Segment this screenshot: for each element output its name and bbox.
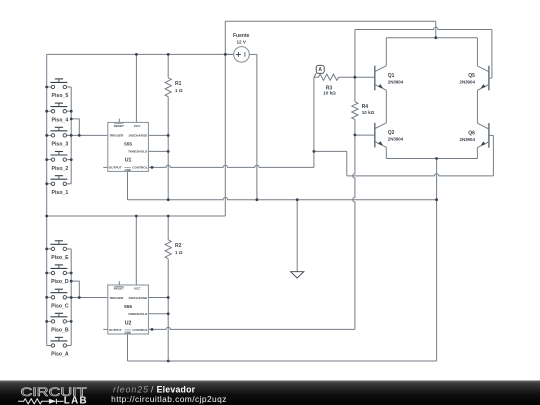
pushbutton switch Piso_C [47, 289, 71, 299]
svg-text:Piso_E: Piso_E [51, 255, 69, 261]
label Piso_A [51, 352, 69, 358]
svg-text:DISCHARGE: DISCHARGE [129, 134, 149, 138]
wire R4 upper lead [354, 77, 356, 102]
wire R3 left lead [314, 76, 319, 78]
svg-text:Piso_3: Piso_3 [52, 142, 69, 148]
label Piso_4 [52, 117, 69, 123]
wire C U2 ground rail [128, 334, 437, 361]
wire U2 VCC [135, 216, 137, 285]
svg-text:VCC: VCC [134, 124, 141, 128]
svg-text:OUTPUT: OUTPUT [109, 166, 123, 170]
svg-text:2N3904: 2N3904 [388, 137, 404, 142]
wire Q6 emitter [476, 148, 478, 159]
pushbutton switch Piso_1 [47, 176, 71, 186]
svg-text:LAB: LAB [64, 396, 87, 405]
pushbutton switch Piso_B [47, 313, 71, 323]
svg-text:1 Ω: 1 Ω [175, 250, 183, 255]
svg-text:Piso_B: Piso_B [51, 328, 69, 334]
wire R3 right lead [339, 76, 375, 78]
svg-text:U1: U1 [125, 158, 132, 164]
svg-text:Q5: Q5 [468, 73, 475, 79]
label R2 value [175, 243, 183, 255]
ground symbol [291, 272, 304, 278]
svg-text:1 Ω: 1 Ω [175, 88, 183, 93]
label Fuente [233, 33, 250, 44]
label Piso_5 [52, 93, 69, 99]
svg-text:Piso_C: Piso_C [51, 304, 69, 310]
svg-text:CONTROL: CONTROL [132, 328, 147, 332]
svg-text:Piso_1: Piso_1 [52, 190, 69, 196]
svg-text:A: A [318, 67, 322, 73]
wire Q5 collector [476, 38, 478, 66]
wire node A vertical [313, 77, 315, 151]
svg-text:2N3904: 2N3904 [460, 80, 476, 85]
wire U2 discharge [148, 297, 168, 299]
wire node A to Q6 base [314, 135, 494, 176]
label Q2 [388, 130, 404, 141]
wire Q2 emitter [385, 147, 387, 158]
svg-text:R1: R1 [175, 81, 182, 87]
wire U1 threshold [148, 150, 168, 152]
transistor Q5 [477, 66, 489, 91]
label Piso_D [51, 279, 69, 285]
label Q1 [388, 73, 404, 84]
wire U2 threshold [148, 313, 168, 315]
pushbutton switch Piso_3 [47, 127, 71, 137]
svg-text:2N3904: 2N3904 [460, 137, 476, 142]
pushbutton switch Piso_A [47, 337, 71, 347]
svg-text:R2: R2 [175, 243, 182, 249]
pushbutton switch Piso_5 [47, 79, 71, 89]
logo CIRCUIT LAB [18, 385, 87, 405]
svg-text:Piso_D: Piso_D [51, 279, 69, 285]
svg-text:Q1: Q1 [388, 73, 395, 79]
resistor R3 [319, 74, 339, 80]
footer title [113, 384, 196, 394]
wire U2 control [148, 327, 355, 329]
svg-text:U2: U2 [125, 320, 132, 326]
pushbutton switch Piso_2 [47, 152, 71, 162]
wire R1 upper lead [167, 54, 169, 77]
label Piso_3 [52, 142, 69, 148]
resistor R4 [352, 102, 358, 120]
label Piso_B [51, 328, 69, 334]
node A flag [314, 65, 324, 77]
svg-text:Fuente: Fuente [233, 33, 250, 39]
svg-text:rleon25: rleon25 [113, 384, 148, 394]
wire B +12V lower [47, 215, 226, 217]
wire R2 lower lead [167, 259, 169, 361]
svg-text:http://circuitlab.com/cjp2uqz: http://circuitlab.com/cjp2uqz [111, 394, 226, 404]
wire line1 top [225, 21, 435, 37]
svg-text:OUTPUT: OUTPUT [109, 328, 123, 332]
voltage source Fuente [225, 47, 257, 63]
wire line2 Q5 base [355, 27, 492, 78]
wire Q1 collector [385, 38, 387, 66]
pushbutton switch Piso_D [47, 265, 71, 275]
svg-text:555: 555 [124, 304, 132, 310]
svg-text:VCC: VCC [134, 287, 141, 291]
wire U1 trigger tee [71, 119, 79, 135]
op-amp U2 555 timer [108, 281, 149, 334]
wire U2 output stub [103, 328, 108, 330]
svg-text:Q6: Q6 [468, 130, 475, 136]
label R4 value [362, 104, 375, 115]
wire U2 trigger row [67, 297, 108, 299]
svg-text:12 V: 12 V [236, 40, 246, 45]
transistor Q6 [477, 123, 489, 148]
label Piso_1 [52, 190, 69, 196]
svg-text:Piso_5: Piso_5 [52, 93, 69, 99]
svg-text:TRIGGER: TRIGGER [109, 134, 124, 138]
label Q5 [460, 73, 476, 84]
wire U1 control [148, 151, 314, 167]
resistor R2 [165, 240, 171, 259]
wire Q2 base [355, 134, 375, 136]
transistor Q1 [375, 66, 387, 91]
svg-text:Piso_2: Piso_2 [52, 166, 69, 172]
wire R4 lower lead [354, 119, 356, 134]
wire R1 lower lead [167, 97, 169, 200]
wire right bus top bank [70, 87, 72, 184]
label R3 value [323, 85, 336, 95]
footer bar [0, 381, 540, 405]
wire Fuente+ vertical [224, 21, 226, 216]
svg-text:GND: GND [124, 168, 130, 172]
svg-text:RESET: RESET [114, 124, 125, 128]
label Piso_2 [52, 166, 69, 172]
svg-text:TRIGGER: TRIGGER [109, 296, 124, 300]
wire R4 line to U2 control [353, 135, 355, 330]
pushbutton switch Piso_E [47, 241, 71, 251]
wire emitter rail [386, 158, 477, 160]
wire ground drop [296, 200, 298, 272]
wire A U1 ground rail [128, 171, 437, 199]
wire top +12V rail [47, 53, 234, 55]
svg-text:Piso_A: Piso_A [51, 352, 69, 358]
svg-text:THRESHOLD: THRESHOLD [128, 150, 148, 154]
svg-text:Q2: Q2 [388, 130, 395, 136]
wire R2 upper lead [167, 216, 169, 240]
wire U2 trigger tee [71, 281, 79, 297]
label R1 value [175, 81, 183, 93]
wire right bus bottom bank [70, 249, 72, 346]
transistor Q2 [375, 123, 387, 148]
svg-text:THRESHOLD: THRESHOLD [128, 312, 148, 316]
footer url [111, 394, 226, 404]
label Piso_C [51, 304, 69, 310]
wire Q1 emitter to Q2 collector [385, 90, 387, 123]
wire line2 start vertical [354, 30, 356, 78]
svg-text:DISCHARGE: DISCHARGE [129, 296, 149, 300]
wire collector rail [386, 37, 477, 39]
pushbutton switch Piso_4 [47, 103, 71, 113]
svg-text:555: 555 [124, 142, 132, 148]
label Q6 [460, 130, 476, 141]
wire Fuente- vertical [256, 54, 258, 199]
wire U1 trigger row [67, 134, 108, 136]
svg-text:Elevador: Elevador [157, 384, 196, 394]
svg-text:CONTROL: CONTROL [132, 166, 147, 170]
svg-text:RESET: RESET [114, 287, 125, 291]
label Piso_E [51, 255, 69, 261]
wire U1 discharge [148, 134, 168, 136]
svg-text:10 kΩ: 10 kΩ [323, 91, 336, 96]
svg-text:10 kΩ: 10 kΩ [362, 110, 375, 115]
wire U1 VCC [135, 54, 137, 122]
op-amp U1 555 timer [108, 119, 149, 172]
resistor R1 [165, 78, 171, 97]
wire Q5 emitter to Q6 collector [476, 90, 478, 123]
svg-text:2N3904: 2N3904 [388, 79, 404, 84]
svg-text:GND: GND [124, 330, 130, 334]
wire U1 output stub [103, 166, 108, 168]
wire emitter to ground [436, 159, 438, 362]
svg-text:Piso_4: Piso_4 [52, 117, 69, 123]
wire left switch bus [46, 54, 48, 345]
